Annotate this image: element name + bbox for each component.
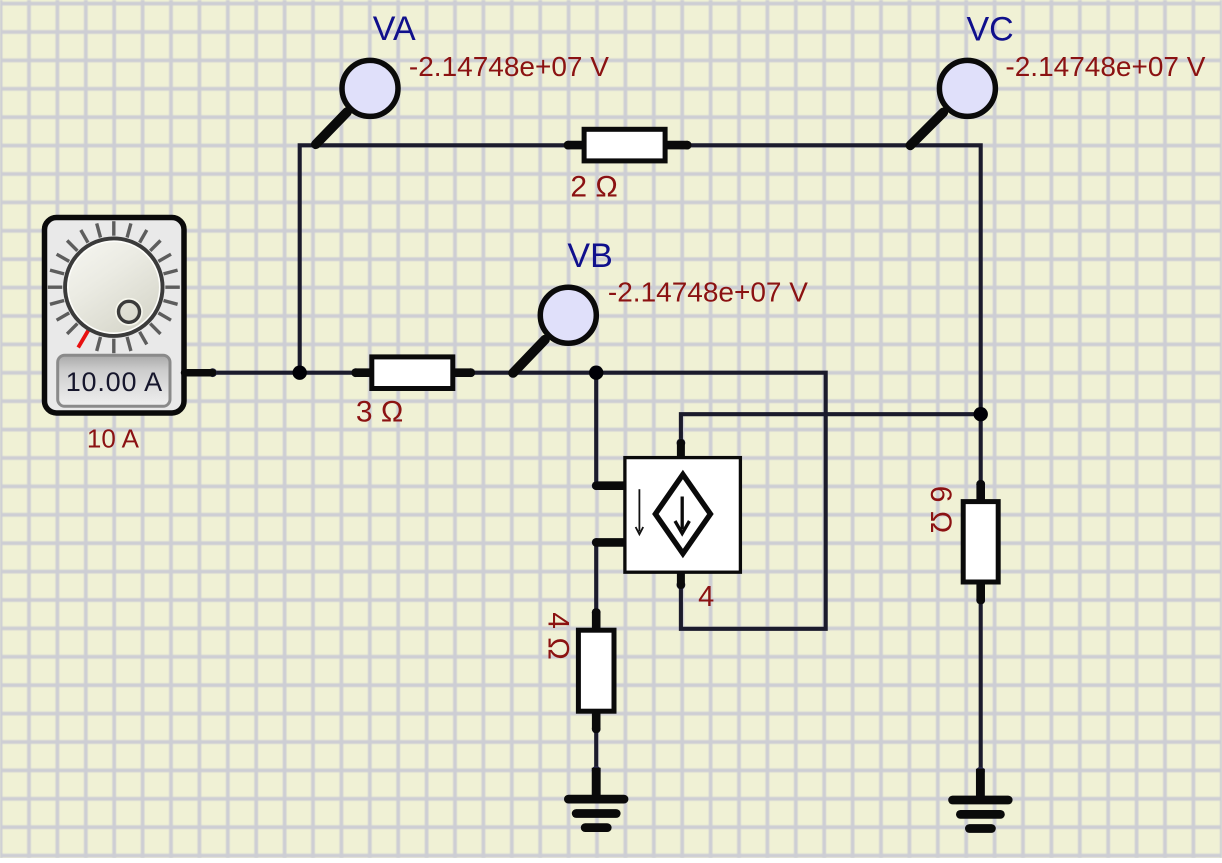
svg-text:3 Ω: 3 Ω <box>356 395 403 428</box>
svg-text:4: 4 <box>698 581 714 613</box>
svg-text:-2.14748e+07 V: -2.14748e+07 V <box>608 276 808 307</box>
svg-text:6 Ω: 6 Ω <box>924 486 957 533</box>
svg-text:VB: VB <box>567 237 612 275</box>
svg-text:10 A: 10 A <box>87 424 140 454</box>
svg-text:-2.14748e+07 V: -2.14748e+07 V <box>409 51 609 82</box>
svg-text:-2.14748e+07 V: -2.14748e+07 V <box>1005 51 1205 82</box>
svg-text:VA: VA <box>373 10 416 48</box>
svg-text:10.00 A: 10.00 A <box>66 367 163 397</box>
svg-text:4 Ω: 4 Ω <box>542 612 575 659</box>
svg-text:2 Ω: 2 Ω <box>570 170 617 203</box>
svg-text:VC: VC <box>967 11 1014 49</box>
